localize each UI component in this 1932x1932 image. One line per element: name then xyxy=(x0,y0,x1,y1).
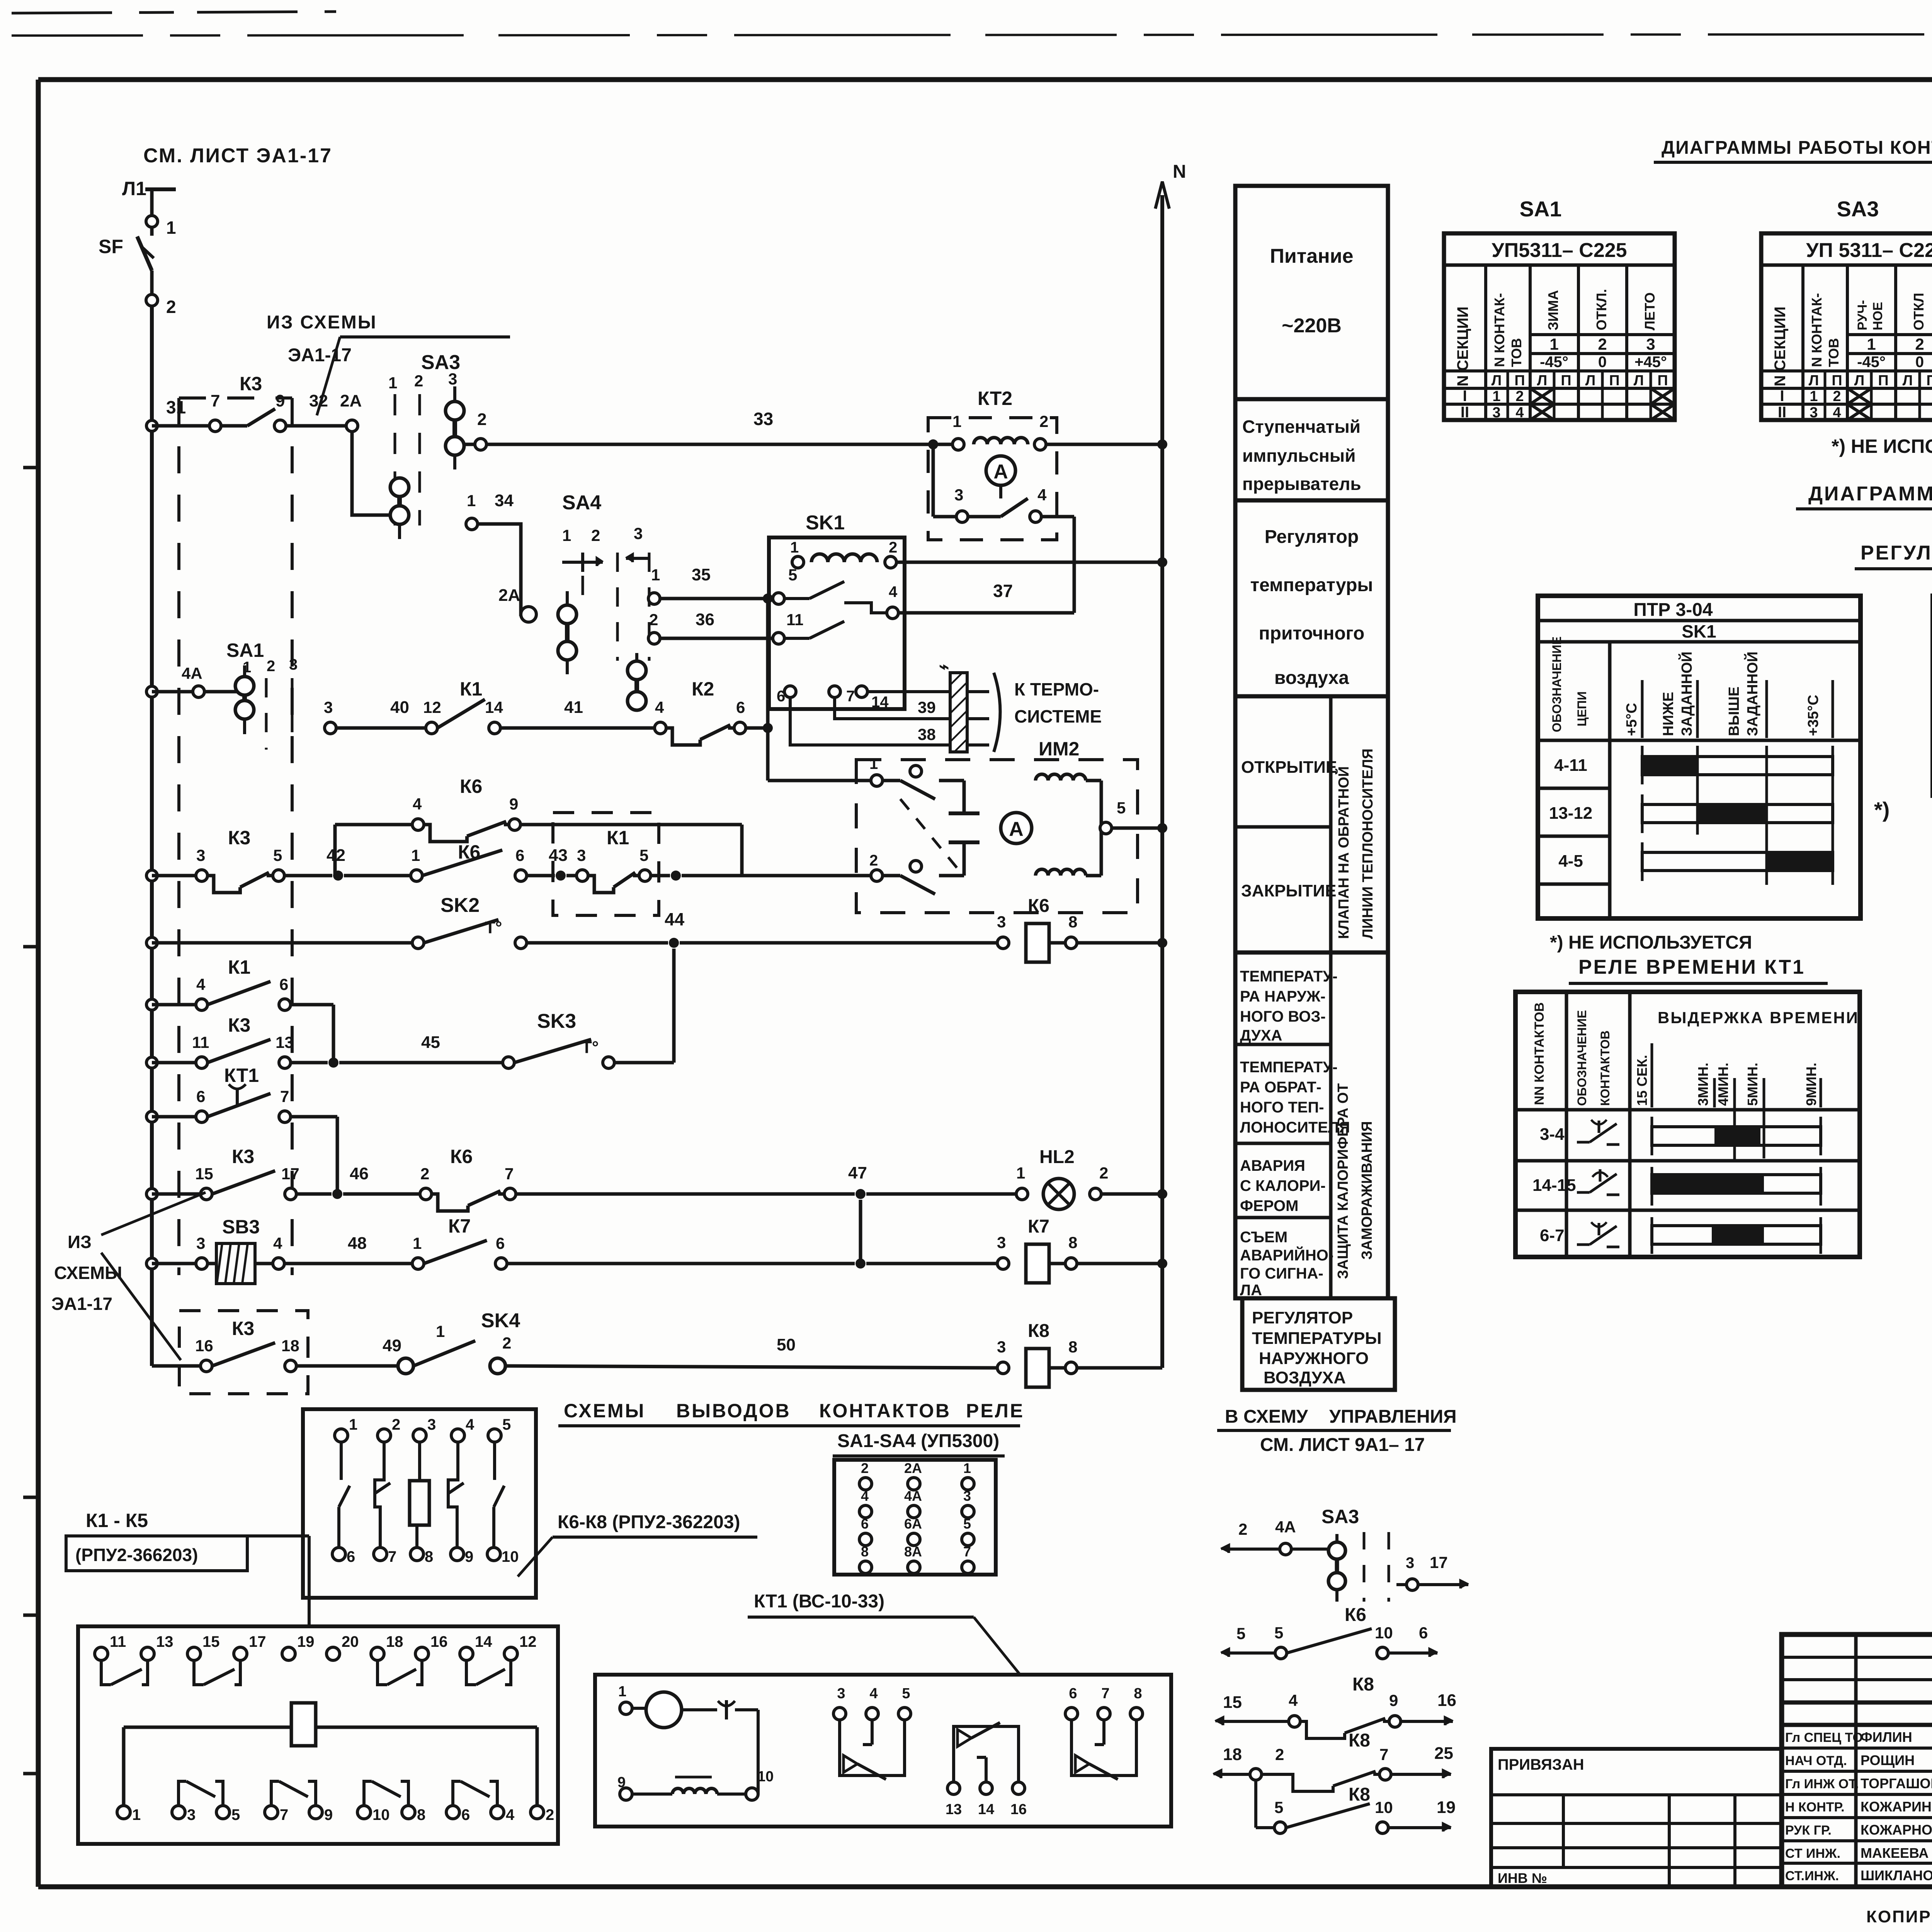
wire 35 to SK1 pin 5 xyxy=(646,565,797,678)
svg-text:2: 2 xyxy=(392,1416,400,1433)
svg-text:ГО СИГНА-: ГО СИГНА- xyxy=(1240,1265,1323,1282)
svg-text:34: 34 xyxy=(495,491,514,510)
svg-text:АВАРИЙНО-: АВАРИЙНО- xyxy=(1240,1246,1333,1264)
svg-text:SB3: SB3 xyxy=(222,1216,260,1238)
svg-text:2: 2 xyxy=(1099,1164,1108,1182)
svg-text:SA1: SA1 xyxy=(226,639,264,661)
svg-text:воздуха: воздуха xyxy=(1274,668,1349,688)
svg-text:К3: К3 xyxy=(240,373,262,395)
svg-text:Гл ИНЖ ОТ.: Гл ИНЖ ОТ. xyxy=(1785,1777,1859,1791)
svg-text:5: 5 xyxy=(1274,1798,1283,1816)
svg-text:2: 2 xyxy=(869,852,878,869)
svg-text:К2: К2 xyxy=(692,678,714,700)
svg-text:НОЕ: НОЕ xyxy=(1871,302,1885,330)
svg-text:1: 1 xyxy=(1810,388,1818,405)
svg-text:РОЩИН: РОЩИН xyxy=(1861,1752,1915,1768)
rung 10: push button SB3, wire 48, K7(1-6), coil K7 xyxy=(146,1200,1167,1284)
svg-text:45: 45 xyxy=(421,1033,440,1052)
svg-text:N КОНТАК-: N КОНТАК- xyxy=(1492,293,1507,367)
switch SA1 xyxy=(146,639,298,750)
svg-text:4А: 4А xyxy=(182,664,202,682)
svg-text:4-11: 4-11 xyxy=(1554,756,1587,775)
switch SA4 second section to wires 35/36 xyxy=(628,653,646,710)
rung 3: contact K6(4-9) xyxy=(335,776,742,876)
svg-text:ТОВ: ТОВ xyxy=(1826,338,1842,367)
svg-text:3: 3 xyxy=(963,1488,971,1504)
svg-text:2: 2 xyxy=(420,1165,429,1183)
svg-text:3: 3 xyxy=(1810,405,1818,421)
svg-text:20: 20 xyxy=(342,1633,359,1650)
svg-text:10: 10 xyxy=(757,1769,774,1785)
svg-text:Л: Л xyxy=(1634,372,1644,389)
svg-text:2: 2 xyxy=(1598,335,1607,353)
svg-text:6: 6 xyxy=(347,1548,355,1565)
svg-text:К8: К8 xyxy=(1028,1321,1049,1341)
svg-text:16: 16 xyxy=(430,1633,448,1650)
svg-text:7: 7 xyxy=(280,1087,289,1105)
svg-text:7: 7 xyxy=(388,1548,396,1565)
svg-text:13: 13 xyxy=(276,1033,294,1051)
svg-text:2А: 2А xyxy=(498,586,520,605)
svg-text:Л: Л xyxy=(1537,372,1548,389)
svg-text:8: 8 xyxy=(425,1548,433,1565)
svg-text:КОПИРОВАЛ:: КОПИРОВАЛ: xyxy=(1866,1907,1932,1926)
svg-text:1: 1 xyxy=(618,1684,626,1700)
svg-text:5: 5 xyxy=(1274,1624,1283,1642)
terminal 2 xyxy=(146,294,176,317)
svg-text:ЗАЩИТА КАЛОРИФЕРА ОТ: ЗАЩИТА КАЛОРИФЕРА ОТ xyxy=(1335,1083,1351,1279)
svg-text:4-5: 4-5 xyxy=(1558,852,1583,871)
svg-text:2: 2 xyxy=(1915,335,1924,353)
svg-text:2: 2 xyxy=(477,410,486,429)
svg-text:НАЧ ОТД.: НАЧ ОТД. xyxy=(1785,1753,1847,1768)
svg-text:4: 4 xyxy=(1833,405,1841,421)
svg-text:КОНТАКТОВ: КОНТАКТОВ xyxy=(1598,1031,1612,1106)
svg-text:14-15: 14-15 xyxy=(1532,1176,1576,1195)
svg-text:SA4: SA4 xyxy=(562,492,601,514)
legend column: function description boxes xyxy=(1235,186,1395,1390)
svg-text:РЕЛЕ: РЕЛЕ xyxy=(966,1400,1024,1422)
fragment: contact K8(4-9) wires 15/16 xyxy=(1215,1674,1456,1738)
svg-text:42: 42 xyxy=(327,846,345,865)
svg-text:ЗАМОРАЖИВАНИЯ: ЗАМОРАЖИВАНИЯ xyxy=(1359,1121,1375,1260)
svg-text:ИЗ СХЕМЫ: ИЗ СХЕМЫ xyxy=(267,312,377,333)
rung 5: SK2 thermostat, node 44, relay coil K6 xyxy=(146,894,1167,962)
svg-text:7: 7 xyxy=(1379,1745,1388,1764)
rung 8: time contact KT1(6-7) xyxy=(146,1065,337,1194)
svg-text:16: 16 xyxy=(195,1337,213,1355)
svg-text:4: 4 xyxy=(655,698,664,716)
svg-text:1: 1 xyxy=(132,1806,141,1823)
svg-text:СХЕМЫ: СХЕМЫ xyxy=(564,1400,646,1422)
svg-text:10: 10 xyxy=(1375,1624,1393,1642)
label KT1 (VS-10-33) xyxy=(748,1591,1020,1675)
svg-text:4: 4 xyxy=(889,583,898,600)
fragment: contact K8(2-7) wires 18/25 xyxy=(1213,1730,1453,1791)
svg-text:КТ2: КТ2 xyxy=(978,388,1012,409)
svg-text:импульсный: импульсный xyxy=(1242,446,1356,466)
svg-text:ОБОЗНАЧЕНИЕ: ОБОЗНАЧЕНИЕ xyxy=(1575,1010,1589,1106)
svg-text:Л: Л xyxy=(1854,372,1865,389)
svg-text:I: I xyxy=(1463,388,1467,405)
svg-text:1: 1 xyxy=(411,846,420,864)
svg-text:(РПУ2-366203): (РПУ2-366203) xyxy=(75,1545,198,1565)
pinout box SA1-SA4 (UP5300) xyxy=(833,1431,1005,1575)
svg-text:10: 10 xyxy=(1375,1798,1393,1816)
svg-text:3: 3 xyxy=(997,1233,1006,1252)
svg-text:4: 4 xyxy=(273,1234,282,1252)
svg-text:8: 8 xyxy=(1068,1338,1077,1356)
svg-text:SK1: SK1 xyxy=(806,512,845,534)
svg-text:9: 9 xyxy=(1389,1691,1398,1709)
svg-text:МАКЕЕВА: МАКЕЕВА xyxy=(1861,1845,1929,1861)
svg-text:К3: К3 xyxy=(228,1014,250,1036)
svg-text:~220В: ~220В xyxy=(1282,315,1342,337)
svg-text:6: 6 xyxy=(461,1806,470,1823)
svg-text:1: 1 xyxy=(166,218,176,238)
svg-text:7: 7 xyxy=(846,688,855,705)
svg-text:1: 1 xyxy=(388,374,397,392)
svg-text:ОТКРЫТИЕ: ОТКРЫТИЕ xyxy=(1241,758,1337,777)
circuit breaker SF xyxy=(99,227,154,294)
svg-text:П: П xyxy=(1878,372,1888,389)
svg-text:РЕГУЛЯТОР: РЕГУЛЯТОР xyxy=(1252,1308,1353,1327)
relay pinout diagram K1-K5 xyxy=(78,1626,558,1844)
svg-text:К1: К1 xyxy=(228,956,250,978)
svg-text:5: 5 xyxy=(902,1685,910,1702)
svg-text:NN КОНТАКТОВ: NN КОНТАКТОВ xyxy=(1532,1002,1547,1105)
svg-text:SF: SF xyxy=(99,236,123,257)
switch contact diagram table SA1 xyxy=(1444,197,1675,421)
svg-text:*) НЕ ИСПОЛЬЗУЮТСЯ: *) НЕ ИСПОЛЬЗУЮТСЯ xyxy=(1832,435,1932,457)
svg-text:ЗАКРЫТИЕ: ЗАКРЫТИЕ xyxy=(1241,881,1336,900)
note: from circuit EA1-17 (top) xyxy=(267,312,510,415)
svg-text:ИЗ: ИЗ xyxy=(68,1232,92,1252)
svg-text:0: 0 xyxy=(1598,354,1607,371)
svg-text:-45°: -45° xyxy=(1540,354,1568,371)
svg-text:2: 2 xyxy=(1515,388,1524,405)
svg-text:11: 11 xyxy=(192,1033,209,1051)
svg-text:6А: 6А xyxy=(904,1516,922,1532)
svg-text:7: 7 xyxy=(1101,1685,1109,1702)
svg-text:3: 3 xyxy=(954,486,963,504)
title: relay contact pinout diagrams xyxy=(558,1400,1024,1426)
note: to control circuit xyxy=(1217,1406,1457,1455)
svg-text:СМ. ЛИСТ 9А1– 17: СМ. ЛИСТ 9А1– 17 xyxy=(1260,1435,1425,1455)
table PTR 3-04 / SK1 xyxy=(1538,596,1889,918)
svg-text:П: П xyxy=(1561,372,1571,389)
wire 36 to SK1 pin 11 xyxy=(648,610,803,644)
svg-text:УП5311– С225: УП5311– С225 xyxy=(1492,239,1627,262)
svg-text:прерыватель: прерыватель xyxy=(1242,474,1361,494)
svg-text:9: 9 xyxy=(276,391,285,410)
svg-text:приточного: приточного xyxy=(1259,623,1365,644)
switch contact diagram table SA3 xyxy=(1761,197,1932,421)
svg-text:13-12: 13-12 xyxy=(1549,804,1593,823)
svg-text:31: 31 xyxy=(166,397,186,417)
svg-text:К6: К6 xyxy=(1345,1605,1366,1625)
N rail with arrow xyxy=(1155,162,1186,1368)
svg-text:Т°: Т° xyxy=(485,918,502,937)
svg-text:15 СЕК.: 15 СЕК. xyxy=(1634,1055,1650,1106)
svg-text:*) НЕ ИСПОЛЬЗУЕТСЯ: *) НЕ ИСПОЛЬЗУЕТСЯ xyxy=(1550,932,1752,953)
svg-text:4МИН.: 4МИН. xyxy=(1715,1063,1731,1106)
svg-text:К6: К6 xyxy=(1028,896,1049,916)
svg-text:*): *) xyxy=(1874,798,1889,822)
svg-text:17: 17 xyxy=(281,1165,299,1183)
svg-text:6: 6 xyxy=(1069,1685,1077,1702)
svg-text:Л: Л xyxy=(1809,372,1819,389)
rung 7: K3(11-13), wire 45, SK3 thermostat xyxy=(146,949,674,1068)
svg-text:2: 2 xyxy=(1039,412,1048,430)
svg-text:3: 3 xyxy=(1492,405,1500,421)
svg-text:5МИН.: 5МИН. xyxy=(1745,1063,1760,1106)
svg-text:К7: К7 xyxy=(448,1215,471,1237)
actuator IM2 (dashed box with contacts, capacitor, ammeter, windings) xyxy=(856,738,1167,913)
svg-text:П: П xyxy=(1609,372,1619,389)
svg-text:К8: К8 xyxy=(1349,1730,1370,1751)
svg-text:1: 1 xyxy=(467,492,476,510)
svg-text:ВОЗДУХА: ВОЗДУХА xyxy=(1264,1368,1346,1387)
svg-text:2: 2 xyxy=(502,1334,511,1352)
svg-text:2: 2 xyxy=(1238,1520,1247,1538)
svg-text:II: II xyxy=(1778,404,1786,421)
rung 6: contact K1(4-6) xyxy=(146,956,333,1063)
svg-text:2: 2 xyxy=(649,611,658,629)
svg-text:5: 5 xyxy=(502,1416,511,1433)
svg-text:К3: К3 xyxy=(232,1146,254,1167)
dashed enclosure for relay K3 contacts xyxy=(179,398,292,1275)
svg-text:4: 4 xyxy=(869,1685,878,1702)
svg-text:37: 37 xyxy=(993,581,1013,601)
svg-text:4: 4 xyxy=(1289,1691,1298,1709)
wire to IM2 pin 1 xyxy=(768,779,871,782)
svg-text:15: 15 xyxy=(202,1633,220,1650)
svg-text:СЪЕМ: СЪЕМ xyxy=(1240,1229,1287,1246)
svg-text:4А: 4А xyxy=(1275,1518,1296,1536)
svg-text:1: 1 xyxy=(1016,1164,1025,1182)
svg-text:РУЧ-: РУЧ- xyxy=(1855,300,1870,330)
svg-text:3: 3 xyxy=(289,656,298,673)
pinout box KT1 (VS-10-33) xyxy=(595,1675,1171,1827)
svg-text:SK3: SK3 xyxy=(537,1010,576,1032)
svg-text:ЛИНИИ ТЕПЛОНОСИТЕЛЯ: ЛИНИИ ТЕПЛОНОСИТЕЛЯ xyxy=(1360,748,1376,939)
svg-text:14: 14 xyxy=(485,698,503,716)
svg-text:8: 8 xyxy=(1134,1685,1142,1702)
svg-text:П: П xyxy=(1514,372,1525,389)
svg-text:ТЕМПЕРАТУ-: ТЕМПЕРАТУ- xyxy=(1240,1059,1338,1076)
svg-text:ЦЕПИ: ЦЕПИ xyxy=(1575,691,1589,726)
svg-text:A: A xyxy=(993,461,1008,483)
svg-text:НОГО ТЕП-: НОГО ТЕП- xyxy=(1240,1099,1324,1116)
wire 37 from SK1 pin 4 up to KT2 contact xyxy=(898,517,1074,613)
svg-text:5: 5 xyxy=(639,846,648,864)
svg-text:ФИЛИН: ФИЛИН xyxy=(1861,1729,1912,1745)
svg-text:ПТР 3-04: ПТР 3-04 xyxy=(1633,600,1713,620)
svg-text:12: 12 xyxy=(423,698,441,716)
svg-text:ИНВ №: ИНВ № xyxy=(1498,1870,1547,1886)
svg-text:1: 1 xyxy=(1867,335,1876,353)
svg-text:4А: 4А xyxy=(904,1488,922,1504)
svg-text:3: 3 xyxy=(196,846,205,864)
svg-text:13: 13 xyxy=(156,1633,173,1650)
wire from node 2A down to switch SA3 xyxy=(352,432,389,515)
svg-text:16: 16 xyxy=(1437,1691,1456,1710)
svg-text:48: 48 xyxy=(348,1234,367,1253)
svg-text:4: 4 xyxy=(413,795,422,813)
svg-text:П: П xyxy=(1926,372,1932,389)
svg-text:3-4: 3-4 xyxy=(1540,1125,1565,1144)
svg-text:2: 2 xyxy=(166,297,176,317)
svg-text:РА НАРУЖ-: РА НАРУЖ- xyxy=(1240,988,1325,1005)
svg-text:6: 6 xyxy=(496,1234,505,1252)
svg-text:ЭА1-17: ЭА1-17 xyxy=(51,1294,112,1314)
svg-text:6: 6 xyxy=(1419,1624,1428,1642)
rung 4: K3(3-5), 42, K6(1-6), K1(43:3-5) to IM2 pin 2 xyxy=(146,813,871,915)
svg-text:ТЕМПЕРАТУРЫ: ТЕМПЕРАТУРЫ xyxy=(1252,1329,1382,1348)
svg-text:3: 3 xyxy=(577,846,586,864)
svg-text:1: 1 xyxy=(349,1416,357,1433)
svg-text:ДУХА: ДУХА xyxy=(1240,1027,1282,1044)
svg-text:9: 9 xyxy=(324,1806,333,1823)
svg-text:II: II xyxy=(1461,404,1469,421)
svg-text:КТ1: КТ1 xyxy=(224,1065,259,1086)
svg-text:2: 2 xyxy=(591,526,600,544)
switch SA4 (selector with arrows) xyxy=(466,491,649,674)
svg-text:1: 1 xyxy=(651,566,660,584)
wires 14/39/38 to thermal system with hatched terminal block xyxy=(790,657,1102,752)
svg-text:1: 1 xyxy=(963,1460,971,1476)
svg-text:40: 40 xyxy=(390,698,409,717)
svg-text:+45°: +45° xyxy=(1634,354,1667,371)
svg-text:3: 3 xyxy=(1406,1554,1414,1571)
svg-text:УПРАВЛЕНИЯ: УПРАВЛЕНИЯ xyxy=(1329,1406,1457,1427)
svg-text:9: 9 xyxy=(465,1548,473,1565)
svg-text:33: 33 xyxy=(753,409,773,429)
rung 1: wire 31 - contact K3(7-9) - wire 32 - node 2A xyxy=(146,373,362,432)
svg-text:+5°С: +5°С xyxy=(1624,703,1640,736)
svg-text:35: 35 xyxy=(692,565,711,584)
terminal 1 xyxy=(146,216,176,238)
svg-text:К6: К6 xyxy=(450,1146,473,1167)
svg-text:-45°: -45° xyxy=(1857,354,1886,371)
svg-text:5: 5 xyxy=(1236,1624,1245,1643)
svg-text:ПРИВЯЗАН: ПРИВЯЗАН xyxy=(1498,1756,1584,1773)
svg-text:ЗАДАННОЙ: ЗАДАННОЙ xyxy=(1678,651,1695,736)
svg-text:ДИАГРАММЫ РАБОТЫ КОНТАКТОВ: ДИАГРАММЫ РАБОТЫ КОНТАКТОВ xyxy=(1808,483,1932,505)
svg-text:температуры: температуры xyxy=(1250,575,1373,595)
svg-text:8: 8 xyxy=(1068,1233,1077,1252)
svg-text:6: 6 xyxy=(736,698,745,716)
svg-text:3: 3 xyxy=(448,370,457,388)
svg-text:14: 14 xyxy=(978,1801,994,1818)
svg-text:1: 1 xyxy=(562,526,571,544)
svg-text:Н КОНТР.: Н КОНТР. xyxy=(1785,1800,1845,1815)
svg-text:4: 4 xyxy=(1515,405,1524,421)
svg-text:11: 11 xyxy=(786,611,803,629)
svg-text:2: 2 xyxy=(1275,1745,1284,1764)
svg-text:9: 9 xyxy=(509,795,518,813)
svg-text:ДИАГРАММЫ РАБОТЫ КОНТАКТОВ: ДИАГРАММЫ РАБОТЫ КОНТАКТОВ УНИВЕРСАЛЬНЫХ… xyxy=(1662,137,1932,158)
svg-text:ВЫВОДОВ: ВЫВОДОВ xyxy=(676,1400,791,1422)
svg-text:19: 19 xyxy=(1437,1798,1456,1817)
svg-text:СИСТЕМЕ: СИСТЕМЕ xyxy=(1014,706,1102,726)
svg-text:1: 1 xyxy=(436,1322,445,1340)
svg-text:0: 0 xyxy=(1915,354,1924,371)
svg-text:РУК ГР.: РУК ГР. xyxy=(1785,1823,1832,1838)
svg-text:5: 5 xyxy=(963,1516,971,1532)
svg-text:9МИН.: 9МИН. xyxy=(1803,1063,1819,1106)
svg-text:Питание: Питание xyxy=(1270,245,1353,267)
svg-text:15: 15 xyxy=(1223,1693,1242,1712)
svg-text:К1 - К5: К1 - К5 xyxy=(86,1510,148,1531)
svg-text:1: 1 xyxy=(790,539,799,556)
svg-text:ТОВ: ТОВ xyxy=(1509,338,1524,367)
svg-text:П: П xyxy=(1657,372,1668,389)
svg-text:3: 3 xyxy=(196,1234,205,1252)
svg-text:Регулятор: Регулятор xyxy=(1265,527,1359,547)
svg-text:ОТКЛ.: ОТКЛ. xyxy=(1594,289,1609,330)
svg-text:18: 18 xyxy=(386,1633,403,1650)
svg-text:SA3: SA3 xyxy=(1321,1506,1359,1527)
svg-text:К1: К1 xyxy=(460,678,482,700)
svg-text:К6-К8 (РПУ2-362203): К6-К8 (РПУ2-362203) xyxy=(558,1512,740,1532)
svg-text:1: 1 xyxy=(1549,335,1558,353)
svg-text:36: 36 xyxy=(696,610,714,629)
svg-text:ИМ2: ИМ2 xyxy=(1039,738,1079,760)
svg-text:12: 12 xyxy=(519,1633,537,1650)
svg-text:2А: 2А xyxy=(904,1460,922,1476)
left supply rail L1 xyxy=(150,306,154,1366)
svg-text:8А: 8А xyxy=(904,1544,922,1560)
svg-text:N: N xyxy=(1173,162,1186,182)
svg-text:N СЕКЦИИ: N СЕКЦИИ xyxy=(1772,306,1789,386)
svg-text:N СЕКЦИИ: N СЕКЦИИ xyxy=(1454,306,1471,386)
svg-text:3: 3 xyxy=(427,1416,436,1433)
svg-text:К ТЕРМО-: К ТЕРМО- xyxy=(1014,679,1099,699)
svg-text:7: 7 xyxy=(211,391,220,410)
svg-text:SK1: SK1 xyxy=(1682,621,1716,641)
svg-text:49: 49 xyxy=(383,1336,401,1355)
svg-text:2: 2 xyxy=(546,1806,554,1823)
svg-text:⌁: ⌁ xyxy=(939,657,949,676)
svg-text:СТ.ИНЖ.: СТ.ИНЖ. xyxy=(1785,1869,1839,1883)
svg-text:39: 39 xyxy=(918,698,936,716)
svg-text:18: 18 xyxy=(1223,1745,1242,1764)
table time relay KT1 contacts xyxy=(1515,992,1860,1257)
svg-text:ШИКЛАНОВА: ШИКЛАНОВА xyxy=(1861,1867,1932,1883)
rung 9: K3(15-17), wire 46, K6(2-7), node 47, lamp HL2 xyxy=(146,1146,1167,1211)
svg-text:4: 4 xyxy=(861,1488,869,1504)
svg-text:ЛЕТО: ЛЕТО xyxy=(1642,293,1658,330)
svg-text:3: 3 xyxy=(837,1685,845,1702)
svg-text:+35°С: +35°С xyxy=(1805,695,1821,736)
switch SA3 (section selector) xyxy=(388,351,486,539)
svg-text:I: I xyxy=(1780,388,1784,405)
svg-text:К8: К8 xyxy=(1352,1674,1374,1695)
svg-text:6: 6 xyxy=(279,975,288,993)
svg-text:ВЫДЕРЖКА: ВЫДЕРЖКА xyxy=(1658,1009,1764,1027)
svg-text:6-7: 6-7 xyxy=(1540,1226,1565,1245)
svg-text:СМ. ЛИСТ ЭА1-17: СМ. ЛИСТ ЭА1-17 xyxy=(143,145,332,167)
svg-text:SK2: SK2 xyxy=(440,894,480,917)
svg-text:КТ1 (ВС-10-33): КТ1 (ВС-10-33) xyxy=(754,1591,884,1612)
svg-text:6: 6 xyxy=(861,1516,869,1532)
svg-text:ЗАДАННОЙ: ЗАДАННОЙ xyxy=(1743,651,1761,736)
svg-text:ФЕРОМ: ФЕРОМ xyxy=(1240,1197,1298,1214)
svg-text:ОБОЗНАЧЕНИЕ: ОБОЗНАЧЕНИЕ xyxy=(1550,636,1564,732)
svg-text:К1: К1 xyxy=(607,827,629,849)
